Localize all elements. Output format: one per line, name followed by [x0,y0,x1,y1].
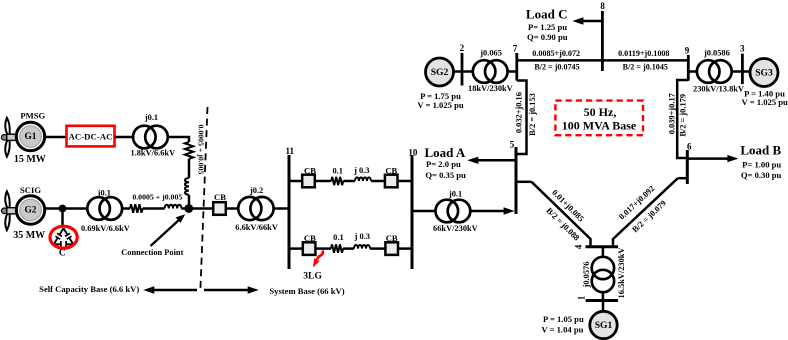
svg-text:0.0119+j0.1008: 0.0119+j0.1008 [618,49,669,58]
dashed base separator line [200,107,207,292]
wire [143,207,165,210]
svg-text:15 MW: 15 MW [14,154,46,165]
Load A arrow [467,157,516,164]
wire T4 to bus 5 with arrow [470,207,514,214]
svg-text:7: 7 [513,43,518,53]
svg-text:1: 1 [577,295,587,300]
svg-text:G2: G2 [25,206,37,216]
self capacity base arrow [143,286,197,293]
node 8 stub [601,11,604,71]
generator SG2 [426,58,454,86]
svg-text:3: 3 [740,44,745,54]
svg-text:V = 1.04 pu: V = 1.04 pu [541,325,583,335]
svg-text:SG2: SG2 [431,67,449,78]
inductor j 0.3 (line2) [354,245,370,249]
bus 6 [686,150,689,184]
transformer T2 0.69kV/6.6kV [81,189,130,233]
wire bus9 to T6 [688,70,697,73]
svg-text:B/2 = j0.153: B/2 = j0.153 [528,93,537,136]
wire bus1 to SG1 [602,301,605,312]
svg-text:j 0.3: j 0.3 [354,232,370,241]
circuit breaker CB (line1 right) [385,165,398,187]
svg-text:230kV/13.8kV: 230kV/13.8kV [693,85,744,94]
svg-text:0.0005 + j0.005: 0.0005 + j0.005 [196,125,205,175]
bus 3 [741,54,744,85]
svg-text:P= 1.25 pu: P= 1.25 pu [528,22,567,32]
svg-text:CB: CB [304,165,316,175]
resistor 0.1 (line1) [331,177,343,185]
svg-text:CB: CB [214,192,226,202]
wire: jog from bus7, down, jog to bus5 [516,81,527,155]
svg-text:j0.1: j0.1 [448,190,462,199]
generator SG1 [590,311,617,338]
svg-text:B/2 = j0.179: B/2 = j0.179 [679,94,688,137]
svg-text:4: 4 [573,244,583,249]
turbine hub / nacelle G1 [1,134,19,140]
bus 2 [461,53,464,86]
wire to bus 10 [398,247,412,250]
wind turbine blades G1 [5,118,9,157]
svg-text:B/2 = j0.1045: B/2 = j0.1045 [623,62,668,71]
circuit breaker CB (line1 left) [302,165,316,187]
system base arrow [204,286,259,293]
svg-text:9: 9 [685,46,690,56]
wire to connection point [181,207,189,210]
transformer T6 230kV/13.8kV [693,49,744,94]
wire T5 to bus 7 [508,70,517,73]
svg-text:1.8kV/6.6kV: 1.8kV/6.6kV [130,148,175,157]
resistor 0.1 (line2) [331,244,343,252]
transformer T3 6.6kV/66kV [235,186,278,232]
wire [343,180,355,183]
resistor G2 branch [130,204,143,212]
wire to connection point [188,195,191,209]
red ellipse around capacitor [50,226,77,248]
svg-text:AC-DC-AC: AC-DC-AC [69,132,113,142]
wire [188,159,191,178]
svg-text:100 MVA Base: 100 MVA Base [562,119,637,133]
diagonal line 6-4 [613,178,678,247]
svg-text:P = 1.05 pu: P = 1.05 pu [543,314,584,324]
wire [370,247,385,250]
connection point node [184,204,193,213]
wire bus10 to T4 [412,210,436,213]
wire G1 to converter [44,136,66,139]
svg-text:j 0.3: j 0.3 [353,166,369,175]
svg-text:SG3: SG3 [755,68,773,79]
svg-text:j0.0586: j0.0586 [703,49,730,58]
bus 9 [687,55,690,81]
svg-text:Self Capacity Base (6.6 kV): Self Capacity Base (6.6 kV) [39,284,139,294]
svg-text:CB: CB [304,233,316,243]
svg-text:10: 10 [408,148,418,158]
svg-text:0.032+j0.16: 0.032+j0.16 [515,92,524,133]
svg-text:C: C [59,248,66,259]
wire T3 to bus 11 [274,207,289,210]
inductor (vertical) G1 branch [185,178,189,195]
svg-text:j0.0576: j0.0576 [582,262,591,289]
bus 11 [288,155,291,269]
svg-text:11: 11 [285,146,294,156]
wire bus4 to T7 [602,247,605,257]
bus 7 [515,53,518,81]
svg-text:8: 8 [600,1,605,11]
svg-text:0.0085+j0.072: 0.0085+j0.072 [532,49,580,58]
svg-text:0.039+j0.17: 0.039+j0.17 [668,93,677,134]
wire [315,247,331,250]
svg-text:6: 6 [687,142,692,152]
transformer T1 1.8kV/6.6kV [130,113,175,158]
transformer T7 16.5kV/230kV [582,248,626,299]
transformer T4 66kV/230kV [433,190,478,234]
3LG fault arrow (red) [313,251,323,268]
Load C arrow [572,17,602,24]
wire connection point to CB [189,207,213,210]
svg-text:6.6kV/66kV: 6.6kV/66kV [235,223,278,232]
svg-text:0.1: 0.1 [332,167,342,176]
svg-text:System Base (66 kV): System Base (66 kV) [269,286,344,296]
svg-text:j0.1: j0.1 [144,113,158,122]
svg-text:Q= 0.30 pu: Q= 0.30 pu [741,170,782,180]
wire [371,180,385,183]
svg-text:0.0005 + j0.005: 0.0005 + j0.005 [132,193,182,202]
diagonal line 5-4 [532,182,591,247]
svg-text:G1: G1 [25,132,37,142]
svg-text:V = 1.025 pu: V = 1.025 pu [742,97,788,107]
transformer T5 18kV/230kV [468,49,513,93]
bus 1 [586,299,618,302]
wire down to capacitor bank [61,209,64,228]
inductor j 0.3 (line1) [355,177,371,181]
svg-text:P= 2.0 pu: P= 2.0 pu [426,159,461,169]
svg-text:P= 1.00 pu: P= 1.00 pu [742,160,781,170]
svg-text:35 MW: 35 MW [13,230,45,241]
wire stub from bus5 [516,181,532,184]
wire T7 to bus 1 [602,292,605,300]
wire CB to T3 [226,207,239,210]
svg-text:V = 1.025 pu: V = 1.025 pu [417,100,464,110]
bus 5 [515,147,518,214]
annotation arrow to connection point [151,214,186,246]
svg-text:5: 5 [510,139,515,149]
svg-text:SCIG: SCIG [20,185,41,195]
circuit breaker CB (line2 left) [303,233,316,255]
svg-text:16.5kV/230kV: 16.5kV/230kV [617,248,626,299]
wire [343,247,354,250]
generator SG3 [750,59,778,87]
wire G2 to T2 [44,207,88,210]
svg-text:SG1: SG1 [595,320,613,331]
generator G1 [16,122,44,150]
svg-text:j0.1: j0.1 [97,189,111,198]
delta capacitor bank C [54,228,73,248]
svg-text:Load C: Load C [526,6,568,21]
circuit breaker CB (main) [213,192,226,215]
wire to bus 10 [398,180,413,183]
svg-text:18kV/230kV: 18kV/230kV [468,84,513,93]
wire T6 to bus 3 [732,70,750,73]
converter AC-DC-AC [67,126,115,147]
svg-text:Connection Point: Connection Point [121,248,183,257]
svg-text:j0.065: j0.065 [479,49,502,58]
wire stub from bus6 [678,177,688,180]
wire T1 to vertical branch [168,137,189,142]
svg-text:B/2 = j0.0745: B/2 = j0.0745 [534,62,579,71]
svg-text:Load A: Load A [424,145,465,160]
svg-text:0.1: 0.1 [333,233,343,242]
bottom transmission line: wire bus11 to CB [289,247,303,250]
wire converter to T1 [115,136,135,139]
svg-text:2: 2 [460,43,465,53]
generator G2 [16,196,44,224]
bus 4 [586,245,619,248]
svg-text:3LG: 3LG [303,271,322,282]
inductor G2 branch [165,205,182,209]
svg-text:Q= 0.35 pu: Q= 0.35 pu [425,170,466,180]
wire bus7 to bus9 [517,59,689,62]
wire: jog from bus9, down, jog to bus6 [677,80,688,158]
svg-text:PMSG: PMSG [20,111,45,121]
svg-text:0.69kV/6.6kV: 0.69kV/6.6kV [81,224,130,233]
svg-text:j0.2: j0.2 [249,186,263,195]
svg-text:Q= 0.90 pu: Q= 0.90 pu [527,32,568,42]
wire T2 to resistor [122,207,130,210]
svg-text:CB: CB [386,233,398,243]
wind turbine blades G2 [5,191,9,230]
top transmission line: wire bus11 to CB [289,180,302,183]
svg-text:CB: CB [385,165,397,175]
wire [315,180,331,183]
junction node to capacitor [59,205,67,213]
wire SG2 to bus2 [454,70,473,73]
resistor (vertical) G1 branch [185,142,193,159]
Load B arrow [687,155,738,162]
svg-text:66kV/230kV: 66kV/230kV [433,224,478,233]
turbine hub / nacelle G2 [1,208,19,214]
svg-text:Load B: Load B [740,143,781,158]
circuit breaker CB (line2 right) [385,233,398,255]
svg-text:50 Hz,: 50 Hz, [584,105,617,119]
bus 10 [411,155,414,269]
